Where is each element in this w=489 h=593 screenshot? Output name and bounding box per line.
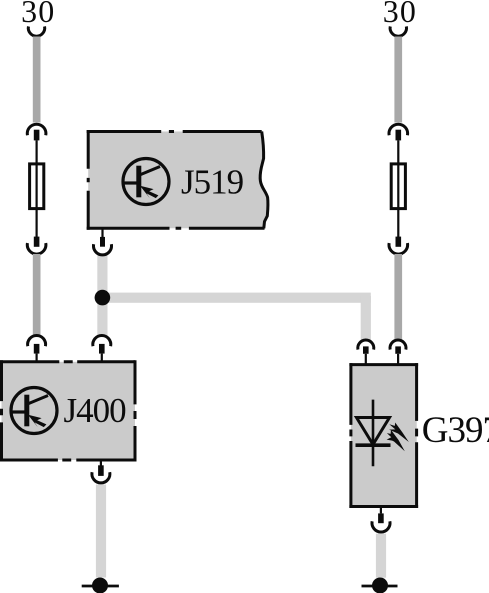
connector arc below J400 [92,472,110,483]
wire: light line from J519 pin down (upper part) [97,254,107,294]
connector arc at J400 pin 2 [93,335,111,346]
wire: horizontal run down-leg to G397 pin 1 [361,296,371,341]
connector arc at G397 pin 2 [390,340,406,350]
J400 border left [0,360,3,461]
connector arc below left fuse [27,243,46,254]
wire: pin to J400 top edge [36,354,38,362]
pin 1 of G397 [363,346,369,353]
pin 1 of J400 [34,344,40,354]
G397 border left [349,363,352,508]
pin at bottom of J519 [100,228,105,247]
wire: right battery feed upper [394,37,402,123]
wire: pin 2 to G397 top edge [397,354,399,365]
wire: left battery feed upper [33,37,41,123]
connector arc above right fuse [389,124,408,135]
connector arc above left fuse [27,124,46,135]
pin 2 of G397 [395,346,401,353]
J400 border bottom [0,459,135,462]
svg-text:30: 30 [383,0,417,29]
wire: pin to right fuse [397,140,399,163]
svg-text:G397: G397 [422,410,489,451]
photodiode symbol of G397 [356,400,409,467]
J519 border top [87,130,262,133]
wire: pin to left fuse [36,140,38,163]
G397 border right [415,363,418,508]
ground point left [82,578,119,593]
J519 torn right edge [260,132,268,229]
wire: left battery feed lower [33,254,41,336]
pin at bottom of G397 [378,508,384,523]
pin below right fuse [396,237,402,247]
G397 border bottom [349,505,418,508]
J400 border right [134,360,137,461]
pin 2 of J400 [99,344,105,354]
pin above left fuse [34,130,40,141]
J519 border left [87,130,90,230]
wire: pin 1 to G397 top edge [365,354,367,365]
wire: J400 to ground (left) [96,485,106,578]
junction node [95,290,111,306]
pin below left fuse [34,237,40,247]
fuse (right) [391,164,405,209]
wire: junction down to J400 pin 2 [97,294,107,336]
electronics symbol circle of J400 [11,388,57,434]
control unit J519 box fill [88,132,268,229]
control unit J400 box fill [2,362,136,460]
J519 border bottom [87,227,265,230]
G397 border top [349,363,418,366]
pin at bottom of J400 [98,462,104,476]
J400 border top [0,360,135,363]
connector arc below right 30 [390,26,406,36]
svg-text:J519: J519 [181,163,244,202]
wire: pin 2 to J400 top edge [101,354,103,362]
wire: junction to horizontal run [97,293,371,303]
wire: right fuse to pin [397,208,399,237]
wire: left fuse to pin [36,208,38,237]
wire: right battery feed lower [394,254,402,341]
ground point right [362,578,398,593]
sensor G397 box fill [351,365,417,507]
connector arc below right fuse [389,243,408,254]
connector arc below left 30 [28,26,44,36]
svg-text:30: 30 [21,0,55,29]
pin above right fuse [396,130,402,141]
wire: G397 to ground (right) [376,534,386,578]
connector arc below J519 [94,244,112,255]
electronics symbol circle of J519 [123,159,169,205]
connector arc below G397 [372,521,390,532]
svg-text:J400: J400 [64,391,127,430]
connector arc at J400 pin 1 [28,335,46,346]
fuse (left) [30,164,44,209]
connector arc at G397 pin 1 [358,340,374,350]
